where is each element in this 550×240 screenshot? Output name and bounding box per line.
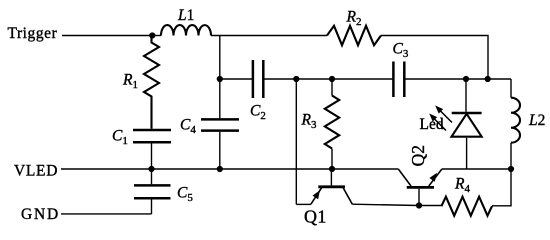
svg-text:L2: L2 xyxy=(528,112,545,129)
inductor L1 xyxy=(161,25,211,35)
wire C4 to VLED rail xyxy=(219,132,221,169)
transistor Q2 emitter arrow xyxy=(429,173,437,182)
resistor R4 xyxy=(441,197,492,216)
LED arrow 1 xyxy=(440,110,453,123)
node Trigger/R1 junction xyxy=(149,32,155,38)
wire GND xyxy=(61,213,152,215)
transistor Q1 bar xyxy=(318,185,345,188)
svg-text:R3: R3 xyxy=(301,111,317,131)
svg-text:C3: C3 xyxy=(393,40,409,60)
LED triangle xyxy=(452,114,482,137)
wire VLED junction down to C5 xyxy=(151,169,153,184)
inductor L2 xyxy=(511,98,520,143)
svg-text:C5: C5 xyxy=(177,184,193,204)
svg-text:R2: R2 xyxy=(346,8,362,28)
wire LED top lead xyxy=(465,79,467,112)
wire Q1 collector to Q2 base node xyxy=(352,204,419,205)
node row2/C4 junction xyxy=(217,76,223,82)
wire row2 from C4 column to C2 xyxy=(220,78,252,80)
transistor Q2 emitter diagonal xyxy=(429,169,442,186)
wire L2 bottom lead xyxy=(510,143,512,169)
resistor R3 xyxy=(325,96,339,149)
node rail/L2/R4 junction xyxy=(508,166,514,172)
svg-text:Trigger: Trigger xyxy=(8,25,58,42)
svg-text:L1: L1 xyxy=(177,7,194,24)
svg-text:Q1: Q1 xyxy=(304,207,327,227)
capacitor C3 xyxy=(393,62,404,98)
wire L2 top lead xyxy=(510,79,512,98)
wire VLED rail right (Q2 emitter to L2) xyxy=(442,168,511,170)
capacitor C4 xyxy=(201,119,239,130)
capacitor C1 xyxy=(133,130,171,142)
svg-text:GND: GND xyxy=(21,206,60,223)
resistor R2 xyxy=(327,26,381,45)
node row2/R2 junction xyxy=(485,76,491,82)
capacitor C2 xyxy=(253,60,263,98)
node VLED/C4 junction xyxy=(217,166,223,172)
transistor Q1 base lead xyxy=(330,169,332,185)
svg-text:C2: C2 xyxy=(250,102,266,122)
transistor Q2 base lead xyxy=(418,189,420,206)
wire C1 to VLED rail xyxy=(151,144,153,170)
wire row2 C2 to C3 xyxy=(264,78,392,80)
svg-text:Led: Led xyxy=(420,116,444,133)
wire R3 bottom lead to rail xyxy=(331,149,333,170)
node row2/Q1-emitter junction xyxy=(293,76,299,82)
wire Trigger input xyxy=(62,35,152,37)
svg-text:C1: C1 xyxy=(112,127,128,147)
node rail/R3/Q1-base junction xyxy=(329,166,335,172)
wire Q1 emitter bottom horizontal xyxy=(296,203,311,205)
wire top rail left of L1 xyxy=(152,35,161,37)
transistor Q2 bar xyxy=(407,186,434,189)
transistor Q1 emitter arrow xyxy=(313,190,321,199)
node row2/LED junction xyxy=(463,76,469,82)
svg-text:Q2: Q2 xyxy=(408,145,428,166)
wire row2 C3 to L2 corner xyxy=(405,78,511,80)
wire Q1 emitter column from row2 xyxy=(295,79,297,204)
node row2/R3 junction xyxy=(329,76,335,82)
svg-text:R4: R4 xyxy=(454,175,470,195)
wire R4 left lead xyxy=(419,205,441,207)
svg-text:R1: R1 xyxy=(122,72,138,92)
capacitor C5 xyxy=(134,185,171,198)
transistor Q1 emitter diagonal xyxy=(311,188,322,204)
wire top rail R2 to right corner, down to row2 xyxy=(381,36,488,80)
wire R4 right lead up to rail xyxy=(492,169,511,206)
wire top rail L1 to R2 xyxy=(211,35,327,37)
LED arrow 2 xyxy=(434,118,447,131)
node VLED/C1 junction xyxy=(148,166,154,172)
transistor Q2 left leg xyxy=(398,169,411,186)
wire C4 column top (tee on top rail down to row2) xyxy=(219,36,221,80)
wire C4 column row2 down to C4 xyxy=(219,79,221,118)
transistor Q1 collector diagonal xyxy=(343,188,352,204)
svg-text:C4: C4 xyxy=(180,116,196,136)
wire VLED rail left xyxy=(61,168,398,170)
LED cathode bar xyxy=(452,112,482,115)
wire C5 to GND xyxy=(151,200,153,214)
svg-text:VLED: VLED xyxy=(14,162,58,179)
wire R3 top lead xyxy=(331,79,333,96)
resistor R1 xyxy=(144,36,159,129)
wire LED bottom lead xyxy=(466,138,468,169)
node Q1-collector/Q2-base/R4 junction xyxy=(416,202,422,208)
